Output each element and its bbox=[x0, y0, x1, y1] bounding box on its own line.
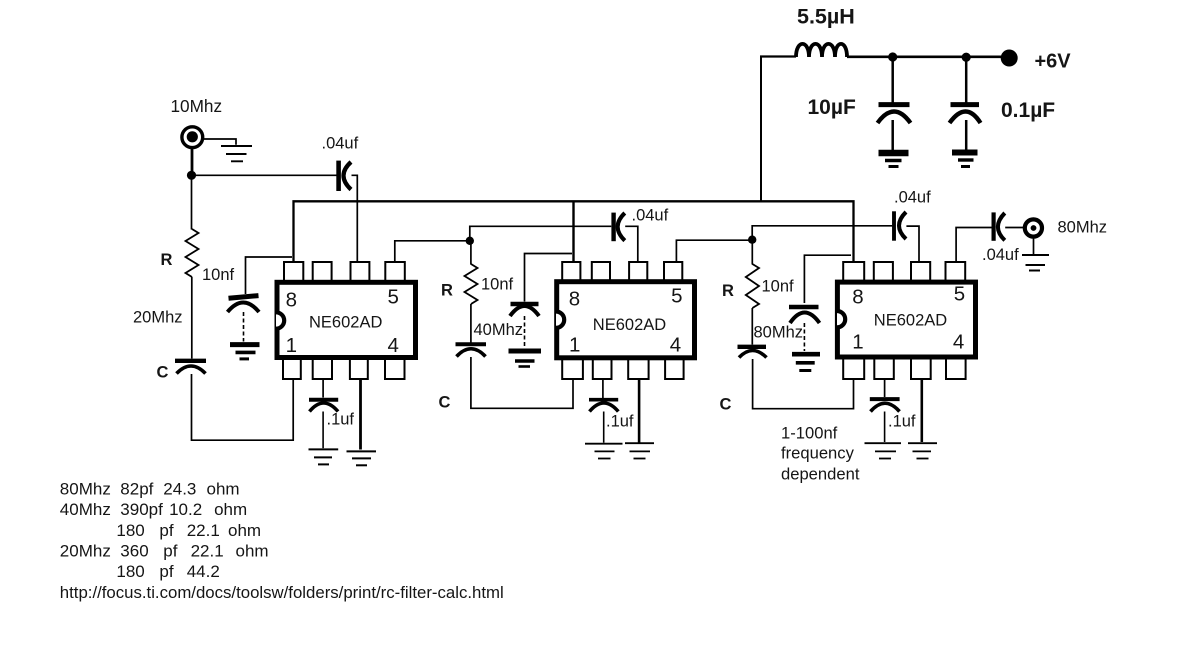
capacitor C11 10nf block3 to ground bbox=[789, 255, 851, 351]
svg-text:8: 8 bbox=[852, 286, 863, 309]
svg-text:8: 8 bbox=[569, 287, 580, 310]
ground input connector bbox=[221, 146, 252, 161]
wire U2 pin5 output bbox=[676, 240, 752, 262]
wire C10 to U3 pin1 bbox=[753, 359, 854, 409]
connector J1 10Mhz input bbox=[182, 127, 203, 176]
svg-text:1: 1 bbox=[569, 333, 580, 356]
ground .1uf block1 bbox=[309, 449, 339, 464]
svg-text:1-100nf: 1-100nf bbox=[781, 424, 838, 443]
label 0.1uF bbox=[1001, 99, 1055, 122]
capacitor C3 10nf block1 to ground bbox=[228, 257, 293, 342]
label R1 bbox=[161, 251, 173, 269]
svg-text:.04uf: .04uf bbox=[982, 246, 1019, 264]
ground U3 pin3 bbox=[908, 443, 937, 458]
ground U1 pin3 bbox=[347, 451, 377, 465]
svg-text:C: C bbox=[439, 394, 451, 412]
svg-text:5: 5 bbox=[954, 283, 965, 306]
wire U1 pin3 to ground bbox=[359, 380, 362, 450]
resistor R1 bbox=[186, 180, 199, 359]
IC U3 NE602AD bbox=[837, 262, 976, 379]
svg-text:NE602AD: NE602AD bbox=[309, 313, 382, 331]
svg-text:180pf22.1ohm: 180pf22.1ohm bbox=[116, 521, 261, 540]
IC U2 NE602AD bbox=[556, 262, 695, 379]
svg-text:1: 1 bbox=[852, 330, 863, 353]
svg-text:+6V: +6V bbox=[1035, 51, 1072, 73]
svg-text:R: R bbox=[722, 282, 734, 300]
label 20Mhz bbox=[133, 309, 183, 327]
svg-text:4: 4 bbox=[953, 330, 964, 353]
wire U2 pin3 to ground bbox=[638, 380, 641, 443]
label 10Mhz bbox=[171, 96, 223, 116]
capacitor C13 .04uf output bbox=[994, 212, 1005, 240]
svg-text:10nf: 10nf bbox=[202, 266, 235, 284]
svg-text:.04uf: .04uf bbox=[894, 189, 931, 207]
wire U1 pin5 output bbox=[395, 241, 470, 262]
wire connector shell to ground bbox=[204, 139, 236, 145]
label C block1 bbox=[157, 364, 169, 382]
svg-text:10nf: 10nf bbox=[762, 278, 795, 296]
IC U1 NE602AD bbox=[276, 262, 416, 379]
label .1uf block2 bbox=[606, 413, 634, 431]
ground .1uf block2 bbox=[585, 444, 623, 459]
label 80Mhz output bbox=[1058, 219, 1108, 237]
capacitor C2 block1 series C bbox=[175, 361, 206, 374]
svg-text:0.1µF: 0.1µF bbox=[1001, 99, 1055, 122]
power bus wire bbox=[294, 201, 854, 262]
label C block3 bbox=[720, 396, 732, 414]
svg-text:R: R bbox=[161, 251, 173, 269]
svg-text:dependent: dependent bbox=[781, 465, 860, 484]
capacitor C12 .1uf block3 bbox=[870, 380, 900, 443]
resistor R3 bbox=[746, 243, 759, 345]
terminal +6V bbox=[1001, 50, 1018, 67]
svg-text:80Mhz: 80Mhz bbox=[1058, 219, 1108, 237]
ground U2 pin3 bbox=[625, 443, 654, 458]
ground C15 bbox=[952, 153, 978, 167]
node D junction 10uF bbox=[888, 52, 897, 61]
node E junction 0.1uF bbox=[962, 53, 971, 62]
svg-text:80Mhz82pf24.3ohm: 80Mhz82pf24.3ohm bbox=[60, 480, 240, 499]
ground 10nf block3 bbox=[792, 354, 820, 370]
svg-text:http://focus.ti.com/docs/tools: http://focus.ti.com/docs/toolsw/folders/… bbox=[60, 583, 504, 602]
label 10nf block3 bbox=[762, 278, 795, 296]
svg-text:C: C bbox=[720, 396, 732, 414]
label R3 bbox=[722, 282, 734, 300]
note 1-100nf frequency dependent bbox=[781, 424, 860, 484]
wire node C to C9 bbox=[752, 226, 892, 240]
wire input node to C1 bbox=[192, 174, 337, 176]
svg-text:10µF: 10µF bbox=[808, 96, 856, 119]
svg-text:NE602AD: NE602AD bbox=[593, 316, 666, 334]
label C block2 bbox=[439, 394, 451, 412]
wire bus riser to inductor bbox=[760, 57, 762, 202]
ground output connector bbox=[1022, 255, 1049, 271]
node C junction block3 input bbox=[748, 236, 756, 244]
svg-text:20Mhz: 20Mhz bbox=[133, 309, 183, 327]
wire C5 to U2 pin6 bbox=[625, 226, 638, 262]
svg-text:R: R bbox=[441, 282, 453, 300]
resistor R2 bbox=[465, 244, 478, 343]
svg-text:20Mhz360pf22.1ohm: 20Mhz360pf22.1ohm bbox=[60, 541, 269, 560]
svg-text:10nf: 10nf bbox=[481, 276, 514, 294]
svg-text:80Mhz: 80Mhz bbox=[754, 324, 804, 342]
label .1uf block1 bbox=[327, 411, 355, 429]
svg-text:10Mhz: 10Mhz bbox=[171, 96, 223, 116]
svg-text:1: 1 bbox=[286, 334, 297, 357]
wire inductor left lead bbox=[760, 55, 796, 57]
svg-text:.1uf: .1uf bbox=[327, 411, 355, 429]
capacitor C5 .04uf series block2 bbox=[614, 213, 625, 242]
ground .1uf block3 bbox=[865, 443, 902, 458]
capacitor C10 block3 series C bbox=[738, 347, 767, 358]
node A junction input bbox=[187, 171, 196, 180]
ground 10nf block1 bbox=[230, 345, 260, 359]
wire +6V rail bbox=[847, 55, 1003, 58]
svg-text:5: 5 bbox=[387, 286, 398, 309]
capacitor C1 .04uf series input bbox=[339, 161, 351, 191]
capacitor C4 .1uf block1 bbox=[309, 380, 338, 449]
wire node B to C5 bbox=[470, 226, 612, 241]
node B junction block2 input bbox=[466, 237, 474, 245]
table of RC values bbox=[60, 480, 504, 603]
connector J2 80Mhz output bbox=[1025, 219, 1042, 236]
label 5.5uH bbox=[797, 5, 855, 29]
capacitor C8 .1uf block2 bbox=[589, 380, 618, 443]
capacitor C15 0.1uF bbox=[950, 57, 981, 150]
wire U3 pin3 to ground bbox=[920, 380, 923, 443]
svg-text:4: 4 bbox=[387, 334, 398, 357]
ground 10nf block2 bbox=[509, 351, 542, 367]
capacitor C14 10uF bbox=[878, 57, 911, 151]
svg-text:5: 5 bbox=[671, 285, 682, 308]
svg-text:180pf44.2: 180pf44.2 bbox=[116, 562, 219, 581]
capacitor C9 .04uf series block3 bbox=[894, 211, 906, 240]
label 10nf block1 bbox=[202, 266, 235, 284]
label 10nf block2 bbox=[481, 276, 514, 294]
svg-text:40Mhz: 40Mhz bbox=[474, 321, 524, 339]
svg-text:C: C bbox=[157, 364, 169, 382]
wire C9 to U3 pin6 bbox=[906, 226, 919, 262]
wire bus drop U2 pin8 bbox=[572, 201, 574, 262]
svg-text:.1uf: .1uf bbox=[606, 413, 634, 431]
svg-text:40Mhz390pf10.2ohm: 40Mhz390pf10.2ohm bbox=[60, 500, 247, 519]
ground C14 bbox=[879, 153, 909, 167]
wire C13 to output connector bbox=[1005, 227, 1024, 229]
label 10uF bbox=[808, 96, 856, 119]
label .1uf block3 bbox=[888, 413, 916, 431]
svg-text:.04uf: .04uf bbox=[322, 135, 359, 153]
svg-text:4: 4 bbox=[670, 333, 681, 356]
wire C1 to U1 pin6 bbox=[352, 175, 358, 262]
svg-text:5.5µH: 5.5µH bbox=[797, 5, 855, 29]
capacitor C7 10nf block2 to ground bbox=[510, 254, 572, 349]
label C9 .04uf bbox=[894, 189, 931, 207]
svg-text:8: 8 bbox=[286, 288, 297, 311]
svg-text:.1uf: .1uf bbox=[888, 413, 916, 431]
label +6V bbox=[1035, 51, 1072, 73]
wire C6 to U2 pin1 bbox=[471, 357, 573, 408]
label C5 .04uf bbox=[632, 207, 669, 225]
label C13 .04uf bbox=[982, 246, 1019, 264]
svg-text:frequency: frequency bbox=[781, 444, 855, 463]
wire J2 to ground bbox=[1033, 238, 1035, 255]
label 80Mhz block3 bbox=[754, 324, 804, 342]
wire C2 to U1 pin1 bbox=[192, 374, 294, 440]
label 40Mhz bbox=[474, 321, 524, 339]
label C1 .04uf bbox=[322, 135, 359, 153]
label R2 bbox=[441, 282, 453, 300]
svg-text:NE602AD: NE602AD bbox=[874, 311, 947, 329]
wire U3 pin5 to output cap bbox=[956, 228, 991, 263]
svg-text:.04uf: .04uf bbox=[632, 207, 669, 225]
capacitor C6 block2 series C bbox=[456, 344, 487, 356]
inductor L1 5.5uH bbox=[796, 44, 847, 57]
